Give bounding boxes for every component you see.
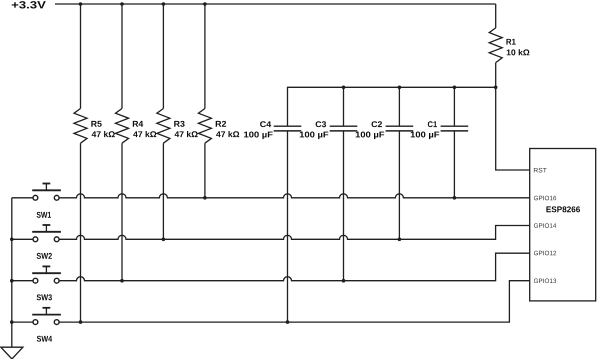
- resistor R1: [489, 28, 502, 63]
- wire: R1 bottom lead: [495, 63, 497, 88]
- capacitor C3 value label: [300, 132, 329, 140]
- wire: C3 bottom lead to SW3 row: [343, 131, 345, 281]
- resistor R2 name label: [216, 121, 226, 127]
- resistor R2: [198, 109, 211, 144]
- capacitor C4 value label: [244, 132, 273, 140]
- node: bus junction at SW4 row: [10, 320, 14, 324]
- node: bus junction at SW2 row: [10, 238, 14, 242]
- resistor R4: [116, 109, 129, 144]
- wire: R4 bottom lead to SW3 row: [121, 143, 123, 281]
- wire: +3.3V top rail: [55, 3, 496, 5]
- wire: R1 top lead: [495, 4, 497, 28]
- wire: C1 bottom lead to SW1 row: [453, 131, 455, 198]
- resistor R5 value label: [92, 131, 115, 137]
- resistor R4 name label: [133, 121, 143, 127]
- switch SW3 name label: [37, 294, 52, 300]
- pin RST label: [534, 168, 547, 173]
- pin GPIO16 label: [534, 196, 556, 201]
- switch SW3: [12, 266, 61, 283]
- node: junction R4/SW3 row: [120, 279, 124, 283]
- wire: R2 top lead: [204, 4, 206, 109]
- wire: left ground bus: [11, 198, 13, 347]
- node: cap rail junction at R1/RST: [494, 86, 498, 90]
- wire: SW4 row to GPIO13: [59, 281, 530, 322]
- capacitor C3: [330, 126, 358, 131]
- wire: R4 top lead: [121, 4, 123, 109]
- capacitor C2 value label: [356, 132, 385, 140]
- switch SW1: [12, 184, 61, 201]
- node: cap rail junction at C2: [398, 86, 402, 90]
- capacitor C4: [274, 126, 302, 131]
- node: junction C1/SW1 row: [453, 196, 457, 200]
- IC U1 ESP8266 box: [530, 149, 596, 301]
- capacitor C1 value label: [411, 132, 440, 140]
- node: rail junction at R2: [203, 2, 207, 6]
- wire: R5 bottom lead to SW4 row: [80, 143, 82, 322]
- node: junction R5/SW4 row: [79, 320, 83, 324]
- node: bus junction at SW3 row: [10, 279, 14, 283]
- switch SW4: [12, 308, 61, 325]
- resistor R5: [74, 109, 87, 144]
- node: junction C4/SW4 row: [286, 320, 290, 324]
- resistor R3 value label: [175, 131, 198, 137]
- wire: C3 top lead: [343, 87, 345, 126]
- wire: C4 top lead (part of rail segment above) is drawn; C4 bottom lead to SW4 row: [287, 131, 289, 322]
- pin GPIO12 label: [534, 251, 556, 256]
- resistor R3: [157, 109, 170, 144]
- node: junction R2/SW1 row: [203, 196, 207, 200]
- resistor R1 name label: [506, 39, 515, 45]
- node: cap rail junction at C3: [342, 86, 346, 90]
- resistor R2 value label: [216, 131, 239, 137]
- resistor R4 value label: [133, 131, 156, 137]
- node: rail junction at R5: [79, 2, 83, 6]
- wire: R3 top lead: [162, 4, 164, 109]
- node: cap rail junction at C1: [453, 86, 457, 90]
- wire: R5 top lead: [80, 4, 82, 109]
- wire: SW1 row to GPIO16 (hops over R5,R4,R3,C4,C3,C2): [59, 194, 530, 198]
- wire: C2 bottom lead to SW2 row: [398, 131, 400, 239]
- node: rail junction at R4: [120, 2, 124, 6]
- capacitor C1 name label: [428, 121, 437, 127]
- wire: R3 bottom lead to SW2 row: [162, 143, 164, 239]
- resistor R3 name label: [174, 121, 184, 127]
- node: junction C3/SW3 row: [342, 279, 346, 283]
- resistor R1 value label: [507, 49, 530, 55]
- node: junction R3/SW2 row: [162, 238, 166, 242]
- wire: C2 top lead: [398, 87, 400, 126]
- capacitor C4 name label: [260, 121, 271, 127]
- pin GPIO14 label: [534, 223, 556, 228]
- wire: SW2 row to GPIO14 (hops over R5,R4,C4,C3): [59, 226, 530, 240]
- IC name label ESP8266: [546, 206, 580, 212]
- node: rail junction at R3: [162, 2, 166, 6]
- capacitor C2: [386, 126, 414, 131]
- switch SW1 name label: [37, 212, 51, 218]
- wire: SW3 row to GPIO12 (hops over R5,C4): [59, 253, 530, 281]
- ground: [1, 347, 23, 359]
- switch SW2: [12, 225, 61, 242]
- capacitor C2 name label: [372, 121, 383, 127]
- switch SW2 name label: [37, 253, 52, 259]
- capacitor C1: [441, 126, 469, 131]
- pin GPIO13 label: [534, 279, 556, 284]
- wire: capacitor top rail: [288, 87, 496, 126]
- power net label +3.3V: [12, 1, 46, 8]
- switch SW4 name label: [37, 336, 52, 342]
- capacitor C3 name label: [316, 121, 327, 127]
- resistor R5 name label: [91, 121, 101, 127]
- node: junction C2/SW2 row: [398, 238, 402, 242]
- wire: R2 bottom lead to SW1 row: [204, 143, 206, 198]
- wire: C1 top lead: [453, 87, 455, 126]
- wire: RST net from rail to pin: [496, 87, 530, 170]
